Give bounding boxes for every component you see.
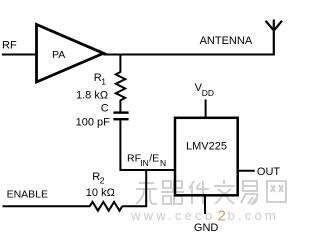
antenna: [266, 20, 282, 56]
svg-text:RF: RF: [2, 40, 17, 52]
svg-text:PA: PA: [52, 49, 65, 61]
svg-text:1: 1: [101, 77, 106, 87]
svg-text:ANTENNA: ANTENNA: [200, 35, 253, 47]
svg-text:RF: RF: [127, 152, 141, 164]
wire PA output to antenna: [104, 54, 274, 56]
power VDD: [195, 82, 214, 98]
wire GND pin: [204, 194, 206, 214]
svg-text:www.cecb: www.cecb: [130, 208, 215, 223]
svg-text:/E: /E: [149, 152, 159, 164]
svg-text:100 pF: 100 pF: [76, 116, 111, 128]
label R2: [92, 171, 105, 186]
svg-text:ENABLE: ENABLE: [7, 189, 48, 201]
wire C to RF_IN pin: [120, 119, 176, 170]
capacitor C: [113, 113, 128, 120]
svg-text:N: N: [160, 158, 166, 168]
svg-text:OUT: OUT: [257, 166, 281, 178]
wire R1 to C: [119, 100, 121, 112]
svg-text:LMV225: LMV225: [186, 141, 227, 153]
resistor R2: [90, 202, 122, 211]
wire OUT pin: [239, 170, 255, 172]
svg-text:2: 2: [100, 176, 105, 186]
amplifier PA: [37, 25, 104, 83]
wire ENABLE to R2: [3, 205, 91, 207]
watermark: [130, 180, 286, 225]
svg-text:C: C: [101, 103, 109, 115]
svg-text:10 kΩ: 10 kΩ: [86, 187, 115, 199]
svg-text:2: 2: [218, 208, 226, 225]
svg-text:b.com: b.com: [228, 208, 279, 223]
label R1: [94, 72, 107, 87]
pin label RF_IN/EN: [127, 152, 166, 168]
wire junction to R1: [119, 55, 121, 73]
IC U1 LMV225: [175, 118, 238, 196]
svg-text:IN: IN: [140, 158, 149, 168]
wire VDD to IC: [205, 100, 207, 120]
svg-text:DD: DD: [202, 88, 214, 98]
wire R2 to RF_IN junction: [122, 170, 146, 206]
svg-text:1.8 kΩ: 1.8 kΩ: [76, 90, 108, 102]
wire RF input: [2, 54, 37, 56]
resistor R1: [116, 72, 125, 100]
svg-text:GND: GND: [194, 222, 219, 234]
